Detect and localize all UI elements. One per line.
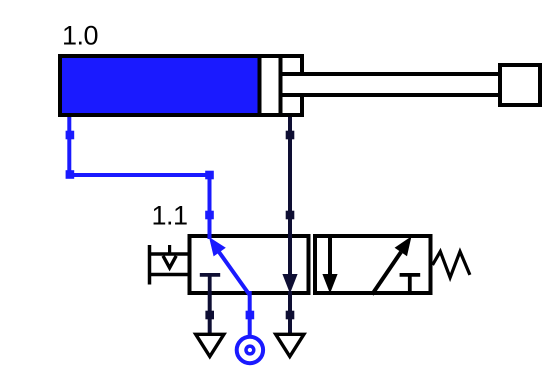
svg-text:1.1: 1.1 [152,201,188,231]
svg-text:1.0: 1.0 [62,21,98,51]
